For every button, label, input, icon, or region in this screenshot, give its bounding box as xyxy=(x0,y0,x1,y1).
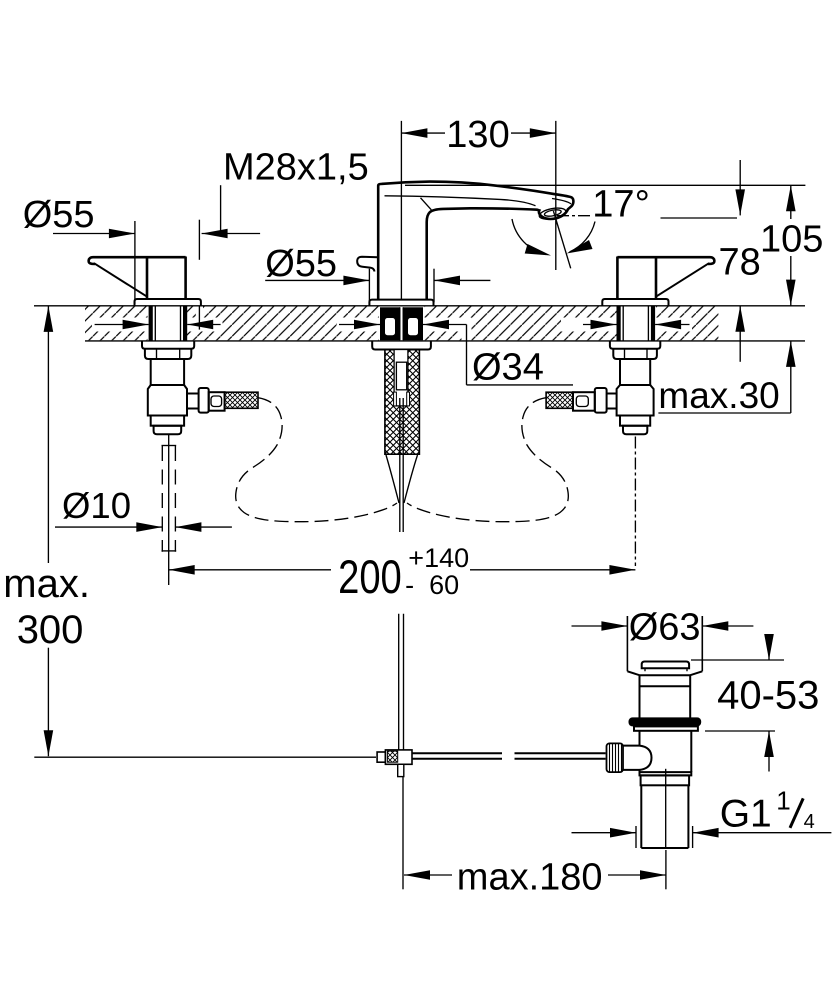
left handle lever xyxy=(89,257,186,300)
drain: tail pipe xyxy=(641,785,688,848)
dimension O63 xyxy=(572,607,754,649)
dimension arrows at left shank xyxy=(95,320,221,330)
drain: lower body xyxy=(640,731,692,772)
rod coupler xyxy=(377,750,412,777)
svg-text:105: 105 xyxy=(760,219,823,261)
dimension 17 degrees xyxy=(512,184,737,269)
drain center line xyxy=(665,769,667,848)
svg-text:Ø55: Ø55 xyxy=(23,194,95,236)
center flange under deck xyxy=(372,341,431,350)
dimension max.180 xyxy=(403,777,666,899)
left unit center line xyxy=(168,435,170,585)
right compression nut xyxy=(620,416,650,426)
dimension max.300 xyxy=(3,306,90,756)
right shank in deck xyxy=(619,306,653,341)
right flex hose (dashed) xyxy=(407,398,568,522)
countertop top line xyxy=(34,305,805,307)
left flex hose (dashed) xyxy=(236,398,397,522)
svg-text:Ø55: Ø55 xyxy=(265,243,337,285)
right valve lower body with shoulder xyxy=(617,385,654,416)
left valve upper body xyxy=(151,359,184,385)
svg-text:max.30: max.30 xyxy=(658,375,779,416)
svg-text:max.180: max.180 xyxy=(457,857,603,899)
right handle lever xyxy=(617,257,714,300)
right braided section xyxy=(546,392,573,408)
drain: bell neck xyxy=(627,671,702,718)
drain: bottom lip xyxy=(640,772,692,775)
pop-up rod upper xyxy=(400,398,403,532)
left port hex xyxy=(199,388,209,413)
right port hex xyxy=(595,388,607,413)
right hex nut xyxy=(613,349,657,359)
spout base plate xyxy=(369,300,433,306)
drain: black seal ring xyxy=(629,717,702,726)
drain: thread band xyxy=(641,775,690,785)
pop-up rod lower xyxy=(399,614,404,751)
dimension arrows at right shank xyxy=(583,320,690,330)
horizontal pop-up rod xyxy=(412,753,606,759)
drain: knurled side knob xyxy=(607,743,624,772)
center threaded shank (lattice) xyxy=(385,350,420,455)
dimension O55 left xyxy=(23,194,135,304)
hose funnel curves below shank xyxy=(386,455,399,503)
left dashed pipe (O10) xyxy=(162,446,175,552)
drain: top cup xyxy=(627,616,702,671)
dimension M28x1,5 xyxy=(199,147,368,330)
dimension O55 center xyxy=(265,243,490,302)
spout outlet lip inner lines xyxy=(538,206,566,221)
spout body outline xyxy=(378,182,573,299)
svg-text:- 60: - 60 xyxy=(405,570,459,600)
spout inner corner tick xyxy=(421,198,432,210)
svg-text:1: 1 xyxy=(776,786,790,816)
countertop slab hatched band xyxy=(85,306,718,341)
right side port neck xyxy=(607,394,617,409)
svg-text:17°: 17° xyxy=(592,184,649,226)
dimension 200 +140/-60 xyxy=(169,543,636,604)
left braided section xyxy=(225,392,258,408)
svg-text:max.: max. xyxy=(3,562,90,606)
left washer plate xyxy=(142,341,194,349)
right unit center line (dash-dot) xyxy=(634,437,636,567)
right port fitting xyxy=(573,392,595,411)
svg-text:200: 200 xyxy=(338,551,402,604)
left compression nut xyxy=(151,416,184,426)
svg-text:+140: +140 xyxy=(408,543,469,573)
dimension 130 xyxy=(401,114,555,299)
center mounting bolts in deck (cross-section) xyxy=(380,307,423,340)
dimension 40-53 xyxy=(691,634,819,772)
left port fitting xyxy=(209,392,225,411)
countertop bottom line xyxy=(85,340,805,342)
right valve upper body xyxy=(620,359,650,385)
spout pop-up knob xyxy=(357,257,378,272)
dimension 78 xyxy=(719,160,761,362)
svg-text:300: 300 xyxy=(17,608,84,652)
svg-text:Ø34: Ø34 xyxy=(472,346,544,388)
svg-text:78: 78 xyxy=(719,242,761,284)
left valve lower body with shoulder xyxy=(148,385,187,416)
right handle base plate xyxy=(602,299,668,306)
svg-text:G1: G1 xyxy=(720,793,772,836)
dimension 105 xyxy=(405,185,823,305)
svg-text:40-53: 40-53 xyxy=(717,674,819,718)
spout inner top line xyxy=(385,196,536,206)
dimension G1 1/4 xyxy=(572,786,832,849)
drain: knob stem xyxy=(623,746,640,770)
drain: flange lip xyxy=(634,726,698,730)
svg-text:4: 4 xyxy=(804,811,815,833)
dimension max.30 xyxy=(658,341,795,416)
left hex nut xyxy=(145,349,191,359)
svg-text:Ø10: Ø10 xyxy=(62,485,131,526)
right washer plate xyxy=(610,341,660,349)
svg-text:130: 130 xyxy=(446,114,509,156)
left handle base plate xyxy=(135,299,201,306)
drain: knob plate xyxy=(642,662,689,669)
svg-text:M28x1,5: M28x1,5 xyxy=(223,147,369,189)
horizontal rod level line xyxy=(34,756,376,758)
dimension O34 xyxy=(339,320,573,389)
svg-text:Ø63: Ø63 xyxy=(629,607,701,649)
spout nose inner line xyxy=(552,199,571,204)
left side port neck xyxy=(187,394,199,409)
left shank in deck xyxy=(151,306,185,341)
dimension O10 xyxy=(55,485,232,532)
